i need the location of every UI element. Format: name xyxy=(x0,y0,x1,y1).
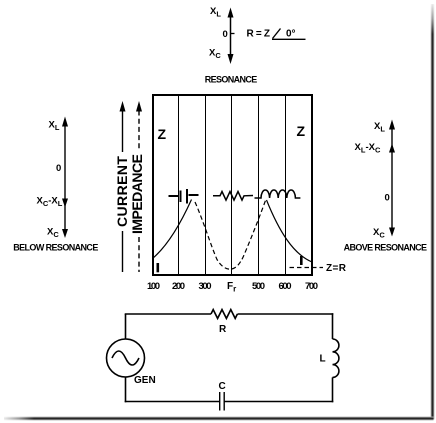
wire: generator bottom to bottom rail xyxy=(125,377,127,402)
svg-text:XC-XL: XC-XL xyxy=(37,196,63,209)
right reactance scale axis line xyxy=(389,120,395,237)
svg-text:Z: Z xyxy=(158,126,167,142)
inductor L xyxy=(333,339,339,377)
left reactance scale axis line xyxy=(62,117,68,239)
svg-text:0: 0 xyxy=(56,163,61,174)
svg-text:Z: Z xyxy=(297,123,306,139)
svg-text:ABOVE RESONANCE: ABOVE RESONANCE xyxy=(344,243,427,253)
wire: bottom rail left segment xyxy=(125,401,220,403)
svg-text:CURRENT: CURRENT xyxy=(114,156,130,227)
svg-text:XL: XL xyxy=(210,6,221,19)
node label I left xyxy=(157,263,160,272)
current arrow (solid) xyxy=(114,101,130,272)
svg-text:R: R xyxy=(219,324,227,335)
wire: top rail left segment xyxy=(125,313,211,315)
svg-text:Z = R: Z = R xyxy=(326,263,347,274)
svg-text:600: 600 xyxy=(279,281,292,292)
svg-text:Fr: Fr xyxy=(227,281,236,294)
svg-text:BELOW RESONANCE: BELOW RESONANCE xyxy=(13,243,98,253)
svg-text:R = Z: R = Z xyxy=(247,29,271,40)
generator GEN xyxy=(107,339,145,377)
current curve right (solid) xyxy=(267,200,313,262)
svg-text:700: 700 xyxy=(305,281,318,292)
inductor symbol (in graph) xyxy=(255,190,301,198)
svg-text:IMPEDANCE: IMPEDANCE xyxy=(129,154,145,234)
decorative shadow bottom xyxy=(0,416,434,423)
svg-text:0°: 0° xyxy=(286,29,296,40)
wire: right rail upper xyxy=(332,313,334,339)
resistor R xyxy=(211,310,237,319)
svg-text:C: C xyxy=(219,381,226,392)
decorative shadow right xyxy=(430,0,436,419)
gridline 500 xyxy=(258,96,259,274)
gridline 600 xyxy=(285,96,286,274)
svg-text:XL: XL xyxy=(49,120,60,133)
wire: right rail lower xyxy=(332,377,334,402)
svg-text:XC: XC xyxy=(373,227,385,240)
impedance arrow (dashed) xyxy=(129,101,145,272)
svg-text:XL-XC: XL-XC xyxy=(355,142,381,155)
svg-text:L: L xyxy=(320,354,326,365)
gridline 300 xyxy=(205,96,206,274)
svg-text:XC: XC xyxy=(209,48,221,61)
gridline Fr xyxy=(231,96,232,274)
svg-text:100: 100 xyxy=(147,281,160,292)
wire: bottom rail right segment xyxy=(225,401,334,403)
impedance curve (dashed U) xyxy=(195,201,266,270)
svg-text:0: 0 xyxy=(223,29,228,40)
svg-text:XC: XC xyxy=(47,227,59,240)
graph frame box xyxy=(152,94,313,276)
svg-text:XL: XL xyxy=(374,121,385,134)
svg-text:0: 0 xyxy=(385,193,390,204)
wire: generator top to top rail xyxy=(125,314,127,339)
capacitor symbol (in graph) xyxy=(169,189,199,204)
node label I right xyxy=(300,256,303,265)
Z = R dashed level line xyxy=(290,267,324,269)
svg-text:500: 500 xyxy=(252,281,265,292)
svg-text:300: 300 xyxy=(199,281,212,292)
capacitor C xyxy=(220,392,225,411)
svg-text:GEN: GEN xyxy=(134,375,156,386)
svg-text:200: 200 xyxy=(172,281,185,292)
wire: top rail right segment xyxy=(238,313,334,315)
resistor symbol (in graph) xyxy=(213,192,253,201)
value label R = Z angle 0 deg xyxy=(247,29,306,40)
gridline 200 xyxy=(178,96,179,274)
current curve left (solid) xyxy=(153,200,192,259)
svg-text:RESONANCE: RESONANCE xyxy=(205,75,258,85)
top reactance scale axis line xyxy=(228,8,235,65)
